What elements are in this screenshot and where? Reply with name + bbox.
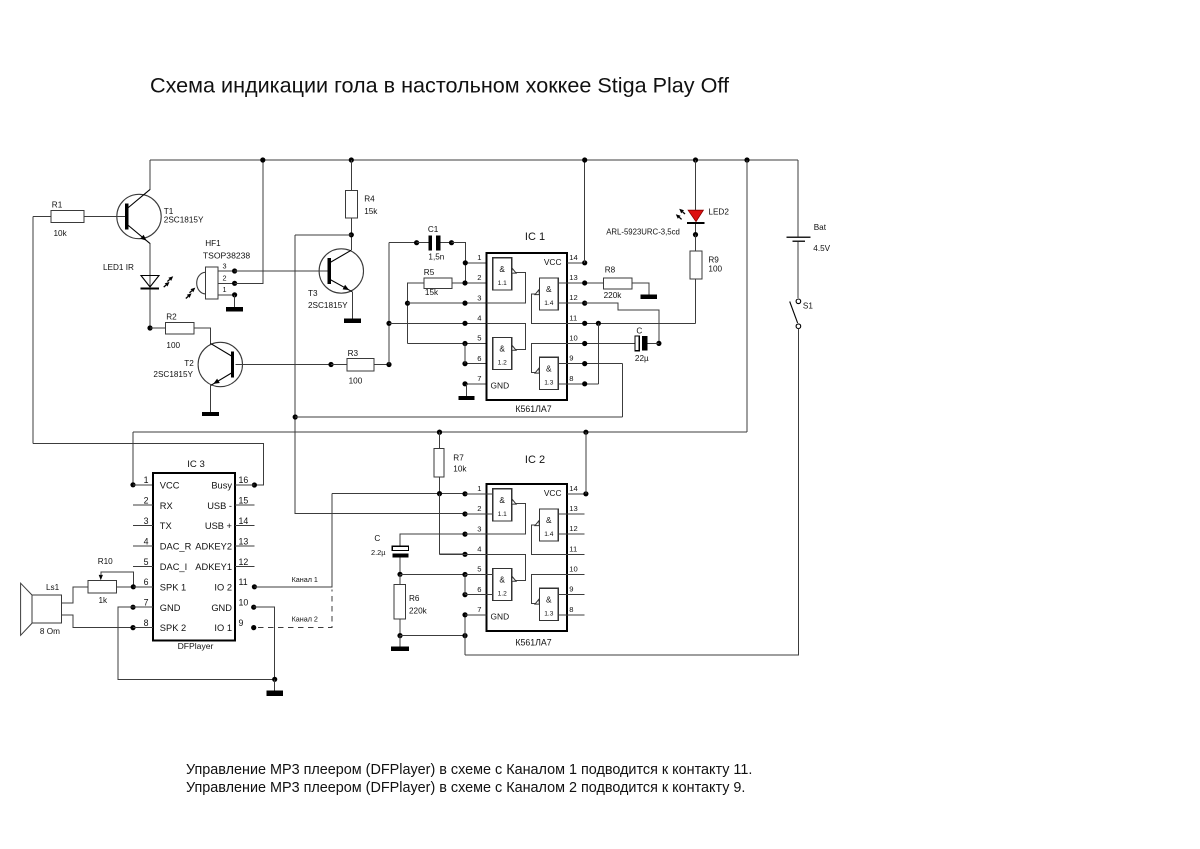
wire R10 to IC3 pin6 SPK1 [131, 584, 153, 589]
svg-text:4.5V: 4.5V [813, 244, 830, 253]
svg-text:5: 5 [477, 334, 481, 343]
wire T2 base to R3 [235, 362, 333, 367]
IC op U2 К561ЛА7 IC 2 [487, 454, 567, 647]
wire IC1 pin11 to R9 [567, 321, 696, 326]
svg-text:R7: R7 [453, 454, 464, 463]
svg-text:1.4: 1.4 [544, 300, 553, 307]
svg-text:8: 8 [569, 374, 573, 383]
LED1 IR diode [103, 263, 173, 330]
wire Busy line from R1 to IC3 pin16 [33, 444, 264, 488]
IR receiver HF1 TSOP38238 [186, 239, 251, 299]
svg-text:7: 7 [477, 374, 481, 383]
svg-text:12: 12 [569, 293, 577, 302]
ground at IC3 GND [266, 679, 283, 696]
svg-text:100: 100 [349, 376, 363, 385]
svg-text:5: 5 [144, 557, 149, 567]
svg-text:100: 100 [166, 341, 180, 350]
svg-text:&: & [546, 595, 552, 605]
wire node line T3 collector net [295, 416, 622, 418]
svg-text:C: C [636, 326, 642, 335]
svg-text:220k: 220k [604, 291, 623, 300]
svg-text:6: 6 [477, 354, 481, 363]
svg-text:R2: R2 [166, 312, 177, 321]
svg-text:HF1: HF1 [205, 239, 221, 248]
transistor T2 [153, 342, 242, 386]
svg-text:11: 11 [569, 544, 577, 553]
svg-text:T2: T2 [184, 359, 194, 368]
svg-text:5: 5 [477, 565, 481, 574]
wire IC1 pin1 stub [463, 260, 493, 265]
svg-text:VCC: VCC [544, 257, 562, 267]
svg-text:2SC1815Y: 2SC1815Y [164, 216, 204, 225]
svg-text:1.3: 1.3 [544, 379, 553, 386]
svg-text:15: 15 [239, 496, 249, 506]
svg-text:1: 1 [222, 285, 226, 294]
svg-text:GND: GND [211, 603, 232, 613]
svg-text:&: & [546, 364, 552, 374]
svg-text:12: 12 [239, 557, 249, 567]
wire IC1 pin8 stub [567, 381, 598, 386]
svg-text:1: 1 [144, 475, 149, 485]
pin numbers IC 1 [477, 253, 577, 383]
potentiometer R10 1k [88, 557, 133, 605]
svg-text:4: 4 [144, 536, 149, 546]
wire IC3 VCC pin1 from distribution line [130, 432, 153, 487]
svg-text:C: C [374, 534, 380, 543]
resistor R3 [331, 349, 392, 385]
node IC1 pin4 [462, 321, 467, 326]
wire speaker top to R10 [62, 587, 88, 603]
svg-text:ARL-5923URC-3,5cd: ARL-5923URC-3,5cd [606, 228, 680, 237]
svg-text:15k: 15k [364, 207, 378, 216]
LED2 red indicator [606, 157, 729, 237]
svg-text:8: 8 [569, 605, 573, 614]
battery Bat 4.5V [786, 160, 830, 298]
wire R6 bottom to IC2 pin7 net [400, 615, 468, 655]
svg-text:Канал 2: Канал 2 [292, 615, 318, 624]
svg-text:RX: RX [160, 501, 173, 511]
resistor R5 [405, 268, 465, 344]
svg-text:100: 100 [708, 265, 722, 274]
wire node to C1 [389, 240, 419, 245]
svg-text:1.2: 1.2 [498, 591, 507, 598]
svg-text:&: & [499, 344, 505, 354]
svg-text:6: 6 [144, 577, 149, 587]
svg-text:IO 2: IO 2 [214, 582, 232, 592]
svg-text:R3: R3 [348, 349, 359, 358]
svg-text:R10: R10 [98, 557, 113, 566]
ground at HF1 pin 1 [226, 295, 243, 312]
ground at T3 emitter [344, 292, 361, 323]
wire IC1 pin3 line [408, 302, 493, 304]
capacitor C 22µ [635, 326, 659, 363]
svg-text:Канал 1: Канал 1 [292, 575, 318, 584]
svg-text:10k: 10k [54, 229, 68, 238]
resistor R9 [690, 235, 723, 324]
node IC1 pin3 [462, 301, 467, 306]
svg-text:3: 3 [144, 516, 149, 526]
wire speaker bottom to IC3 pin8 SPK2 [62, 615, 153, 630]
svg-text:Управление MP3 плеером (DFPlay: Управление MP3 плеером (DFPlayer) в схем… [186, 762, 752, 778]
wire IC3 pin16 Busy stub [235, 484, 254, 486]
node IC1 pin5 [462, 341, 467, 346]
wire IC1 pin7 stub [462, 381, 486, 386]
svg-text:SPK 1: SPK 1 [160, 582, 186, 592]
svg-text:&: & [499, 495, 505, 505]
svg-text:К561ЛА7: К561ЛА7 [515, 638, 551, 648]
svg-text:Схема индикации гола в настоль: Схема индикации гола в настольном хоккее… [150, 73, 730, 98]
svg-text:ADKEY1: ADKEY1 [195, 562, 232, 572]
svg-text:LED2: LED2 [708, 207, 729, 216]
svg-text:2SC1815Y: 2SC1815Y [308, 301, 348, 310]
wire IC3 pin10 GND to ground [251, 605, 277, 682]
svg-text:R9: R9 [708, 256, 719, 265]
svg-text:IC 2: IC 2 [525, 454, 545, 466]
wire battery minus down and to bottom line [465, 329, 798, 656]
svg-text:USB +: USB + [205, 521, 232, 531]
IC op U1 К561ЛА7 IC 1 [487, 231, 567, 414]
svg-text:2: 2 [144, 496, 149, 506]
resistor R1 [33, 201, 126, 239]
svg-text:11: 11 [569, 313, 577, 322]
wire IC1 pin4 line [389, 322, 493, 324]
svg-text:LED1 IR: LED1 IR [103, 263, 134, 272]
svg-text:T3: T3 [308, 289, 318, 298]
svg-text:DAC_I: DAC_I [160, 562, 187, 572]
wire top power rail [150, 159, 798, 161]
resistor R6 [394, 574, 428, 638]
svg-text:13: 13 [569, 273, 577, 282]
wire HF1 pin3 to T3 base [235, 270, 328, 272]
capacitor C1 1.5n [417, 225, 466, 283]
svg-text:15k: 15k [425, 288, 439, 297]
wire IC2 pin14 VCC up to distribution line [567, 432, 589, 496]
wire R7 node down to IC2 pin4 [440, 494, 466, 554]
svg-text:22µ: 22µ [635, 354, 649, 363]
svg-text:R4: R4 [364, 195, 375, 204]
svg-text:14: 14 [569, 253, 577, 262]
svg-text:1.4: 1.4 [544, 531, 553, 538]
wire HF1 pin2 to top rail [235, 157, 266, 283]
svg-text:3: 3 [222, 261, 226, 270]
svg-text:8 Om: 8 Om [40, 627, 60, 636]
wire IC1 pin11 to pin8 [597, 323, 599, 384]
svg-text:7: 7 [144, 598, 149, 608]
wire IC1 pin12 to capacitor C [567, 301, 662, 346]
svg-text:VCC: VCC [544, 488, 562, 498]
wire IO2 Канал 1 to IC2 pin1 [252, 494, 465, 590]
wire left feedback from Busy line up to R1 [32, 216, 34, 443]
svg-text:2: 2 [477, 273, 481, 282]
svg-text:1: 1 [477, 253, 481, 262]
svg-text:IO 1: IO 1 [214, 623, 232, 633]
svg-text:VCC: VCC [160, 480, 180, 490]
svg-text:9: 9 [569, 354, 573, 363]
capacitor C 2.2µ [371, 534, 465, 577]
svg-text:4: 4 [477, 545, 481, 554]
IC U3 DFPlayer IC 3 [153, 459, 235, 651]
svg-text:14: 14 [569, 484, 577, 493]
svg-text:4: 4 [477, 314, 481, 323]
transistor T3 [308, 235, 363, 310]
wire IC1 pin9 down to T3 node line [567, 361, 622, 417]
svg-text:1.3: 1.3 [544, 610, 553, 617]
svg-text:&: & [499, 264, 505, 274]
svg-text:10: 10 [239, 598, 249, 608]
speaker Ls1 8 Om [21, 583, 62, 636]
svg-text:R6: R6 [409, 594, 420, 603]
resistor R4 [345, 157, 378, 237]
wire IC1 pin6 stub [462, 343, 492, 366]
svg-text:10: 10 [569, 564, 577, 573]
svg-text:7: 7 [477, 605, 481, 614]
svg-text:2SC1815Y: 2SC1815Y [153, 370, 193, 379]
svg-text:1,5n: 1,5n [428, 252, 444, 261]
wire IC3 pin7 GND net [118, 605, 275, 680]
IC3 right pin stubs [235, 505, 254, 566]
svg-text:9: 9 [239, 618, 244, 628]
svg-text:&: & [546, 515, 552, 525]
svg-text:1k: 1k [99, 596, 109, 605]
title [150, 73, 730, 98]
svg-text:14: 14 [239, 516, 249, 526]
svg-text:R8: R8 [605, 266, 616, 275]
ground at T2 emitter [202, 386, 219, 416]
svg-text:11: 11 [239, 577, 248, 587]
svg-text:Ls1: Ls1 [46, 583, 60, 592]
notes text [186, 762, 752, 796]
svg-text:R5: R5 [424, 268, 435, 277]
svg-text:Управление MP3 плеером (DFPlay: Управление MP3 плеером (DFPlayer) в схем… [186, 780, 745, 796]
svg-text:GND: GND [160, 603, 181, 613]
svg-text:220k: 220k [409, 607, 428, 616]
svg-text:R1: R1 [52, 201, 63, 210]
svg-text:C1: C1 [428, 225, 439, 234]
svg-text:&: & [499, 575, 505, 585]
wire R5 bottom corner to IC1 pin5 [408, 343, 493, 345]
svg-text:&: & [546, 284, 552, 294]
svg-text:16: 16 [239, 475, 249, 485]
svg-text:13: 13 [569, 504, 577, 513]
svg-text:S1: S1 [803, 301, 813, 310]
svg-text:USB -: USB - [207, 501, 232, 511]
resistor R8 [604, 266, 649, 301]
svg-text:8: 8 [144, 618, 149, 628]
svg-text:GND: GND [491, 380, 510, 390]
wire IC1 pin13 stub [567, 280, 604, 285]
wire dashed Канал 2 from IO1 [251, 590, 332, 631]
wire IC1 pin14 VCC to rail [567, 157, 587, 265]
wire R4 bottom / T3 collector to IC2 pin2 node [293, 235, 465, 514]
svg-text:10: 10 [569, 333, 577, 342]
wire capacitor to IC2 pin5 line [400, 573, 493, 575]
svg-text:2: 2 [222, 274, 226, 283]
svg-text:T1: T1 [164, 207, 174, 216]
IC3 left pin stubs [133, 505, 153, 566]
svg-text:3: 3 [477, 293, 481, 302]
svg-text:13: 13 [239, 536, 249, 546]
svg-text:1.1: 1.1 [498, 280, 507, 287]
svg-text:Bat: Bat [814, 223, 827, 232]
svg-text:TSOP38238: TSOP38238 [203, 251, 251, 261]
switch S1 [790, 299, 814, 329]
svg-text:10k: 10k [453, 465, 467, 474]
svg-text:TX: TX [160, 521, 172, 531]
svg-text:К561ЛА7: К561ЛА7 [515, 404, 551, 414]
svg-text:IC 3: IC 3 [187, 459, 205, 470]
svg-text:DFPlayer: DFPlayer [178, 641, 214, 651]
wire VCC distribution line [133, 430, 747, 435]
resistor R7 [434, 430, 467, 497]
svg-text:DAC_R: DAC_R [160, 542, 192, 552]
svg-text:2.2µ: 2.2µ [371, 548, 386, 557]
svg-text:Busy: Busy [211, 480, 232, 490]
svg-text:12: 12 [569, 524, 577, 533]
ground at R6 [391, 636, 409, 652]
ground at R8 [640, 295, 657, 299]
svg-text:1: 1 [477, 484, 481, 493]
ground at IC1 pin7 [459, 384, 475, 400]
svg-text:GND: GND [491, 611, 510, 621]
wire IC1 pin10 to capacitor C [567, 341, 635, 346]
svg-text:6: 6 [477, 585, 481, 594]
svg-text:9: 9 [569, 585, 573, 594]
svg-text:1.1: 1.1 [498, 511, 507, 518]
IC2 left pin dots and stubs [440, 491, 493, 617]
wire rail to VCC distribution line [744, 157, 749, 432]
wire C1 left down to R3/pin4 node [386, 243, 391, 365]
svg-text:IC 1: IC 1 [525, 231, 545, 243]
wire IC1 pin2 stub [462, 280, 492, 285]
svg-text:3: 3 [477, 524, 481, 533]
svg-text:SPK 2: SPK 2 [160, 623, 186, 633]
svg-text:1.2: 1.2 [498, 360, 507, 367]
pin numbers IC 2 [477, 484, 577, 614]
svg-text:2: 2 [477, 504, 481, 513]
svg-text:ADKEY2: ADKEY2 [195, 542, 232, 552]
pin numbers IC 3 [144, 475, 249, 628]
transistor T1 [117, 160, 204, 276]
resistor R2 [150, 312, 210, 350]
IC2 right unconnected stubs [567, 514, 585, 615]
